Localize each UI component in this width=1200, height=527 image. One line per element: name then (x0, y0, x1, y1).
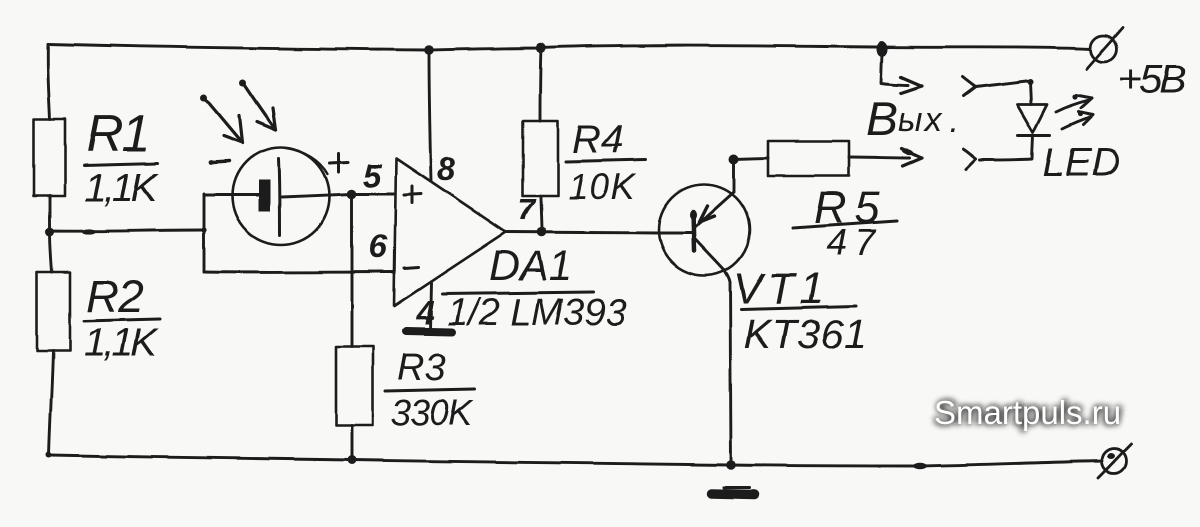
svg-text:4: 4 (415, 294, 434, 331)
node: R4 on rail (536, 43, 546, 53)
svg-text:ых: ых (898, 101, 944, 139)
op-amp U1 triangle (394, 158, 506, 306)
underline R5 (792, 221, 897, 228)
svg-text:В: В (866, 93, 898, 146)
light arrow into photodiode 1 (201, 95, 243, 144)
wire: +5V branch to LED (877, 42, 909, 86)
transistor VT1 (659, 185, 750, 283)
svg-text:LED: LED (1042, 141, 1120, 185)
underline R4 (566, 160, 645, 162)
photodiode BL1 (233, 148, 330, 245)
wire: chevron to LED anode (976, 81, 1031, 104)
resistor R2 (37, 272, 70, 351)
connector chevron bottom (963, 149, 976, 169)
svg-text:6: 6 (369, 228, 388, 265)
svg-text:R3: R3 (397, 347, 446, 389)
svg-text:1,1K: 1,1K (84, 166, 160, 210)
wire: node A to R2 (50, 232, 52, 272)
op-amp minus input mark (404, 267, 418, 268)
resistor R4 (523, 121, 558, 196)
wire: R3 to bottom rail (351, 425, 354, 460)
pin 8 wire (429, 50, 431, 181)
resistor R5 (768, 141, 849, 176)
svg-text:R2: R2 (86, 270, 143, 322)
node: ink blob on wire (82, 229, 96, 234)
node: R3 bottom junction (348, 456, 357, 465)
LED HL1 (980, 104, 1050, 160)
svg-text:330K: 330K (391, 392, 474, 433)
wire: photodiode left lead (204, 194, 261, 197)
watermark Smartpuls.ru (934, 394, 1121, 431)
wire: top rail to R1 (48, 44, 50, 119)
label minus at photodiode (209, 160, 229, 165)
svg-text:R1: R1 (86, 105, 148, 163)
underline R1 (84, 163, 158, 165)
wire: bottom rail (49, 455, 1102, 466)
underline R2 (84, 319, 160, 321)
wire: collector to bottom rail (730, 282, 731, 463)
svg-text:Smartpuls.ru: Smartpuls.ru (934, 394, 1121, 431)
wire: rail to R4 (540, 48, 541, 121)
light arrow out of LED 2 (1062, 111, 1093, 129)
svg-text:DA1: DA1 (489, 242, 573, 290)
svg-text:.: . (949, 102, 958, 140)
node A: divider junction (46, 228, 55, 237)
svg-text:+5В: +5В (1118, 56, 1185, 102)
light arrow into photodiode 2 (240, 80, 277, 131)
ground symbol (711, 488, 755, 495)
svg-text:47: 47 (826, 222, 883, 263)
svg-text:KT361: KT361 (744, 311, 867, 357)
wire: photodiode branch vertical (203, 194, 206, 272)
svg-text:1/2 LM393: 1/2 LM393 (447, 292, 627, 334)
node B: pin5 / R3 junction (347, 189, 357, 199)
svg-text:10K: 10K (568, 166, 637, 207)
wire: R2 to bottom rail (49, 351, 53, 455)
connector chevron top (963, 77, 976, 96)
terminal bottom right (1098, 444, 1131, 478)
underline VT1 (741, 306, 856, 309)
node: pin8 on rail (424, 45, 434, 55)
svg-text:5: 5 (363, 157, 382, 194)
label Вых (866, 93, 958, 146)
wire: to op-amp pin 6 (204, 271, 394, 274)
wire: R4 to output node (541, 196, 542, 232)
node: bottom-left corner (46, 452, 52, 458)
node: blob on bottom rail (913, 463, 927, 469)
node: output junction (537, 227, 547, 237)
pin 4 ground bar (406, 331, 452, 332)
svg-text:R4: R4 (572, 118, 623, 162)
wire: node B to R3 (351, 194, 354, 347)
node: collector junction on rail (726, 460, 736, 470)
pin 4 wire (430, 283, 431, 331)
light arrow out of LED 1 (1056, 94, 1092, 112)
wire: emitter to R5 (734, 158, 768, 192)
resistor R1 (34, 119, 65, 196)
wire: photodiode to pin 5 (282, 194, 394, 197)
svg-text:7: 7 (518, 192, 537, 227)
wire: op-amp output to transistor base (506, 232, 659, 233)
arrowhead +5V branch (901, 77, 922, 93)
wire: R5 to output arrow (849, 157, 909, 158)
svg-text:8: 8 (437, 150, 456, 187)
wire: R1 to node A (49, 196, 52, 231)
underline DA1 (442, 292, 593, 294)
node: emitter corner (729, 154, 739, 164)
node (201, 227, 206, 232)
resistor R3 (336, 347, 373, 425)
wire: node A to photodiode branch (50, 230, 204, 231)
svg-text:1,1K: 1,1K (84, 321, 160, 365)
node: LED corner (1027, 79, 1033, 85)
wire: +5V top rail (48, 44, 1091, 50)
op-amp plus input mark (404, 186, 421, 203)
arrowhead output (900, 148, 921, 166)
terminal +5V top right (1087, 28, 1123, 69)
underline R3 (385, 389, 474, 391)
label plus at photodiode (330, 153, 348, 172)
